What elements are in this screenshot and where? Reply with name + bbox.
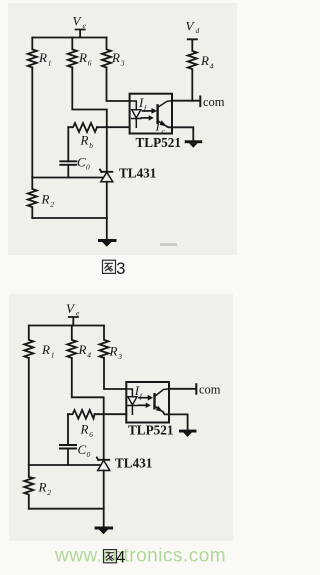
resistor R1 (fig4) bbox=[24, 326, 33, 359]
capacitor C0 (fig4) bbox=[60, 445, 76, 449]
wire C0 to ref bbox=[67, 165, 69, 178]
wire R6 to C0 (fig4) bbox=[67, 414, 69, 445]
arrow 2 (fig4) bbox=[139, 404, 147, 406]
wire TL431 anode bbox=[106, 182, 108, 240]
svg-text:C: C bbox=[77, 155, 86, 170]
svg-text:6: 6 bbox=[88, 59, 92, 68]
svg-text:6: 6 bbox=[89, 430, 93, 439]
wire ref divider bbox=[32, 177, 103, 179]
svg-text:R: R bbox=[78, 50, 87, 65]
wire left rail bbox=[31, 68, 33, 178]
svg-text:TLP521: TLP521 bbox=[128, 423, 173, 438]
svg-text:2: 2 bbox=[50, 200, 54, 209]
resistor R1 bbox=[28, 38, 37, 68]
svg-text:TLP521: TLP521 bbox=[136, 135, 181, 150]
svg-text:d: d bbox=[196, 26, 200, 35]
wire top rail bbox=[32, 37, 106, 39]
svg-text:TL431: TL431 bbox=[115, 456, 152, 471]
label 图4 bbox=[104, 550, 117, 563]
label 图3 bbox=[103, 260, 116, 273]
svg-text:0: 0 bbox=[86, 163, 90, 172]
svg-text:I: I bbox=[155, 119, 161, 134]
wire ref divider (fig4) bbox=[29, 464, 100, 466]
svg-text:R: R bbox=[41, 192, 50, 207]
photo-transistor of U1 bbox=[156, 105, 158, 123]
photo-transistor of U3 bbox=[153, 394, 155, 408]
svg-text:1: 1 bbox=[48, 59, 52, 68]
wire left rail (fig4) bbox=[28, 358, 30, 465]
wire emitter to ground (fig4) bbox=[163, 412, 188, 430]
wire LED cathode to node (fig4) bbox=[95, 413, 127, 415]
svg-text:R: R bbox=[80, 422, 89, 437]
ground (fig3 right) bbox=[185, 140, 203, 147]
wire R4 to cathode node (fig4) bbox=[72, 358, 104, 460]
svg-text:4: 4 bbox=[116, 549, 125, 567]
arrow If bbox=[143, 110, 153, 112]
svg-text:R: R bbox=[109, 344, 118, 359]
svg-text:R: R bbox=[78, 342, 87, 357]
svg-text:com: com bbox=[199, 383, 221, 397]
background tint bbox=[0, 0, 243, 575]
svg-text:C: C bbox=[78, 442, 87, 457]
wire Rb to C0 bbox=[67, 127, 69, 161]
resistor R2 (fig4) bbox=[24, 465, 33, 509]
arrow 2 bbox=[142, 117, 150, 119]
node Ve terminal bbox=[76, 30, 85, 38]
diode LED of U3 bbox=[126, 389, 132, 397]
svg-text:4: 4 bbox=[210, 62, 214, 71]
svg-text:R: R bbox=[111, 50, 120, 65]
ground (fig4 right) bbox=[179, 430, 197, 437]
svg-text:3: 3 bbox=[120, 59, 125, 68]
resistor R2 bbox=[28, 178, 37, 219]
svg-text:TL431: TL431 bbox=[119, 166, 156, 181]
TL431 U2 bbox=[100, 170, 112, 172]
capacitor C0 bbox=[60, 161, 76, 165]
svg-text:R: R bbox=[200, 53, 209, 68]
resistor R6 (fig4) bbox=[68, 410, 95, 419]
svg-text:www.cntronics.com: www.cntronics.com bbox=[54, 546, 226, 567]
wire R3 to LED anode bbox=[107, 68, 130, 102]
ground (fig4 bottom) bbox=[95, 527, 114, 535]
svg-text:R: R bbox=[41, 342, 50, 357]
node Vd terminal bbox=[188, 39, 197, 40]
svg-text:b: b bbox=[89, 141, 93, 150]
resistor R4 (fig4) bbox=[67, 326, 76, 359]
wire R6 to cathode node bbox=[72, 68, 107, 172]
svg-text:3: 3 bbox=[116, 260, 125, 278]
wire TL431 anode (fig4) bbox=[103, 471, 105, 528]
arrow If (fig4) bbox=[139, 397, 149, 399]
resistor R6 bbox=[68, 38, 77, 68]
resistor R3 (fig4) bbox=[100, 326, 109, 359]
svg-text:0: 0 bbox=[87, 450, 91, 459]
svg-text:3: 3 bbox=[117, 352, 122, 361]
resistor R3 bbox=[102, 38, 111, 68]
optocoupler U3 TLP521 box (fig4) bbox=[126, 382, 169, 423]
resistor Rb bbox=[68, 123, 97, 132]
wire bottom bbox=[32, 217, 107, 219]
node com terminal bbox=[199, 97, 201, 107]
wire C0 to ref (fig4) bbox=[67, 449, 69, 466]
wire R3 to LED anode (fig4) bbox=[104, 358, 126, 389]
svg-text:2: 2 bbox=[47, 488, 51, 497]
svg-text:R: R bbox=[38, 50, 47, 65]
wire collector to com bbox=[172, 100, 200, 102]
ground (fig3 bottom) bbox=[98, 239, 117, 247]
wire bottom (fig4) bbox=[29, 508, 104, 510]
node com terminal (fig4) bbox=[195, 384, 197, 394]
svg-text:com: com bbox=[203, 95, 225, 109]
wire collector to com (fig4) bbox=[169, 388, 196, 390]
TL431 U4 (fig4) bbox=[97, 458, 109, 460]
resistor R4 bbox=[188, 41, 197, 101]
svg-text:4: 4 bbox=[87, 351, 91, 360]
svg-text:R: R bbox=[80, 133, 89, 148]
svg-text:1: 1 bbox=[51, 351, 55, 360]
optocoupler U1 TLP521 box bbox=[130, 94, 172, 134]
wire LED cathode to node bbox=[97, 126, 130, 128]
svg-text:R: R bbox=[38, 480, 47, 495]
diode LED of U1 bbox=[130, 101, 137, 110]
wire emitter to ground bbox=[167, 127, 194, 141]
node Ve terminal (fig4) bbox=[69, 317, 78, 326]
wire top rail (fig4) bbox=[29, 325, 104, 327]
